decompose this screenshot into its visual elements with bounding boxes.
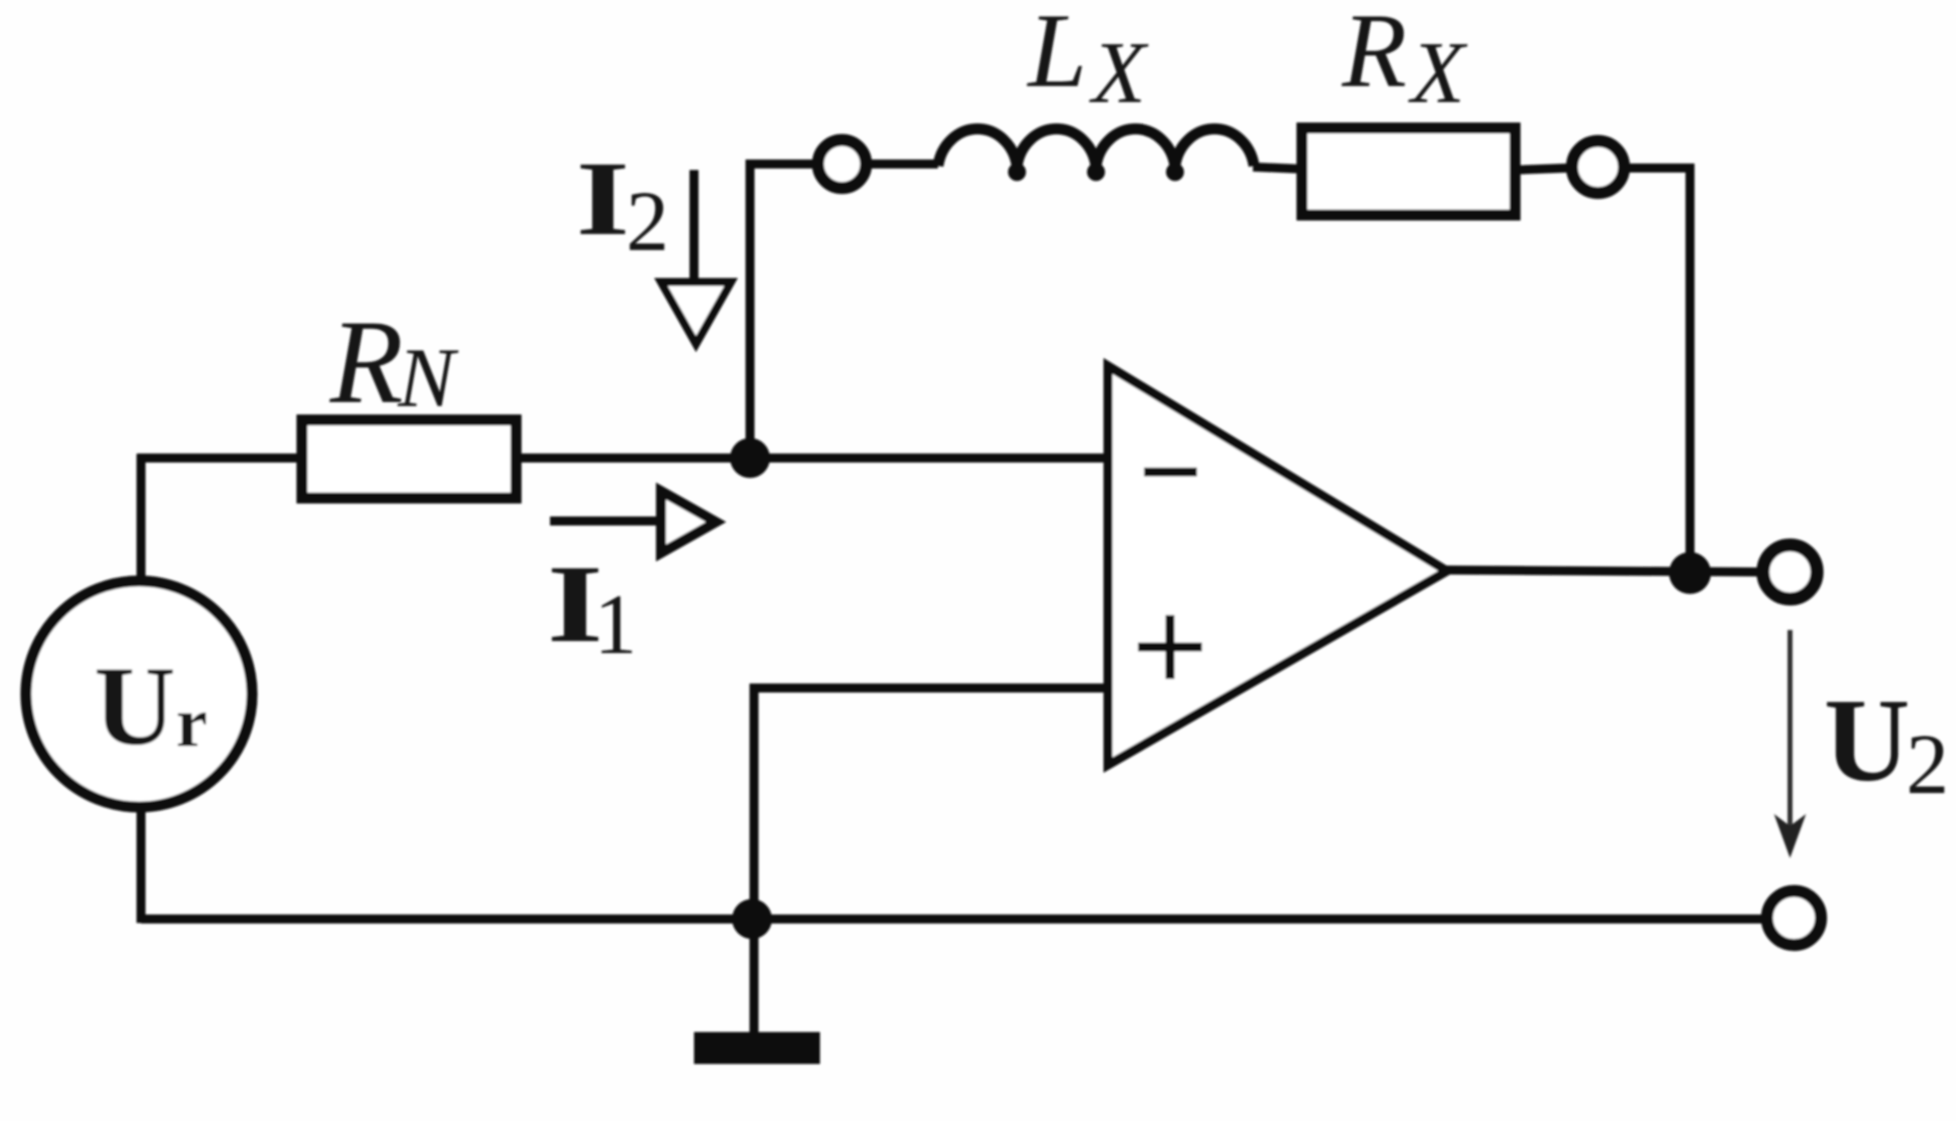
- wire terminal to inductor: [868, 160, 938, 169]
- wire op-amp output: [1445, 570, 1762, 572]
- wire RN to op-amp inverting input: [516, 454, 1108, 463]
- svg-text:R: R: [1341, 0, 1407, 109]
- wire source bottom to ground wire: [137, 804, 146, 923]
- wire inductor to RX: [1253, 167, 1302, 169]
- svg-text:X: X: [1408, 25, 1468, 122]
- svg-text:U: U: [94, 644, 176, 769]
- svg-text:r: r: [176, 684, 208, 762]
- wire source top to RN level: [137, 454, 146, 580]
- op-amp plus sign: [1138, 615, 1202, 679]
- wire non-inverting input: [754, 688, 1108, 919]
- svg-text:I: I: [576, 139, 630, 257]
- node C (ground junction): [732, 899, 772, 939]
- resistor RN: [302, 420, 516, 498]
- node B (output junction): [1669, 552, 1711, 594]
- wire node A up and to left terminal: [750, 164, 814, 462]
- current arrow I1: [550, 517, 659, 526]
- bottom wire: [141, 915, 1768, 924]
- terminal (top-left): [818, 140, 866, 188]
- terminal (output right): [1763, 545, 1817, 599]
- current arrow I2: [690, 170, 699, 282]
- ground: [694, 1032, 820, 1064]
- wire right terminal down to output node: [1628, 168, 1690, 572]
- svg-text:2: 2: [1906, 716, 1949, 812]
- op-amp minus sign: [1144, 468, 1197, 477]
- svg-text:X: X: [1089, 25, 1149, 122]
- inductor LX: [938, 129, 1254, 166]
- svg-text:U: U: [1824, 674, 1910, 806]
- svg-text:2: 2: [626, 173, 669, 269]
- svg-text:L: L: [1026, 0, 1087, 109]
- terminal (top-right): [1572, 141, 1624, 193]
- svg-text:N: N: [397, 331, 459, 425]
- wire left horizontal to RN: [137, 454, 302, 463]
- svg-text:1: 1: [594, 576, 637, 672]
- wire RX to right terminal: [1515, 168, 1568, 170]
- terminal (bottom right): [1767, 891, 1821, 945]
- wire node C down to ground: [750, 919, 759, 1034]
- resistor RX: [1302, 128, 1515, 215]
- voltage arrow U2: [1788, 630, 1793, 838]
- op-amp U1: [1108, 366, 1447, 765]
- voltage source Ur: [26, 581, 252, 807]
- svg-text:R: R: [329, 295, 403, 428]
- node A (junction at inverting input): [730, 438, 770, 478]
